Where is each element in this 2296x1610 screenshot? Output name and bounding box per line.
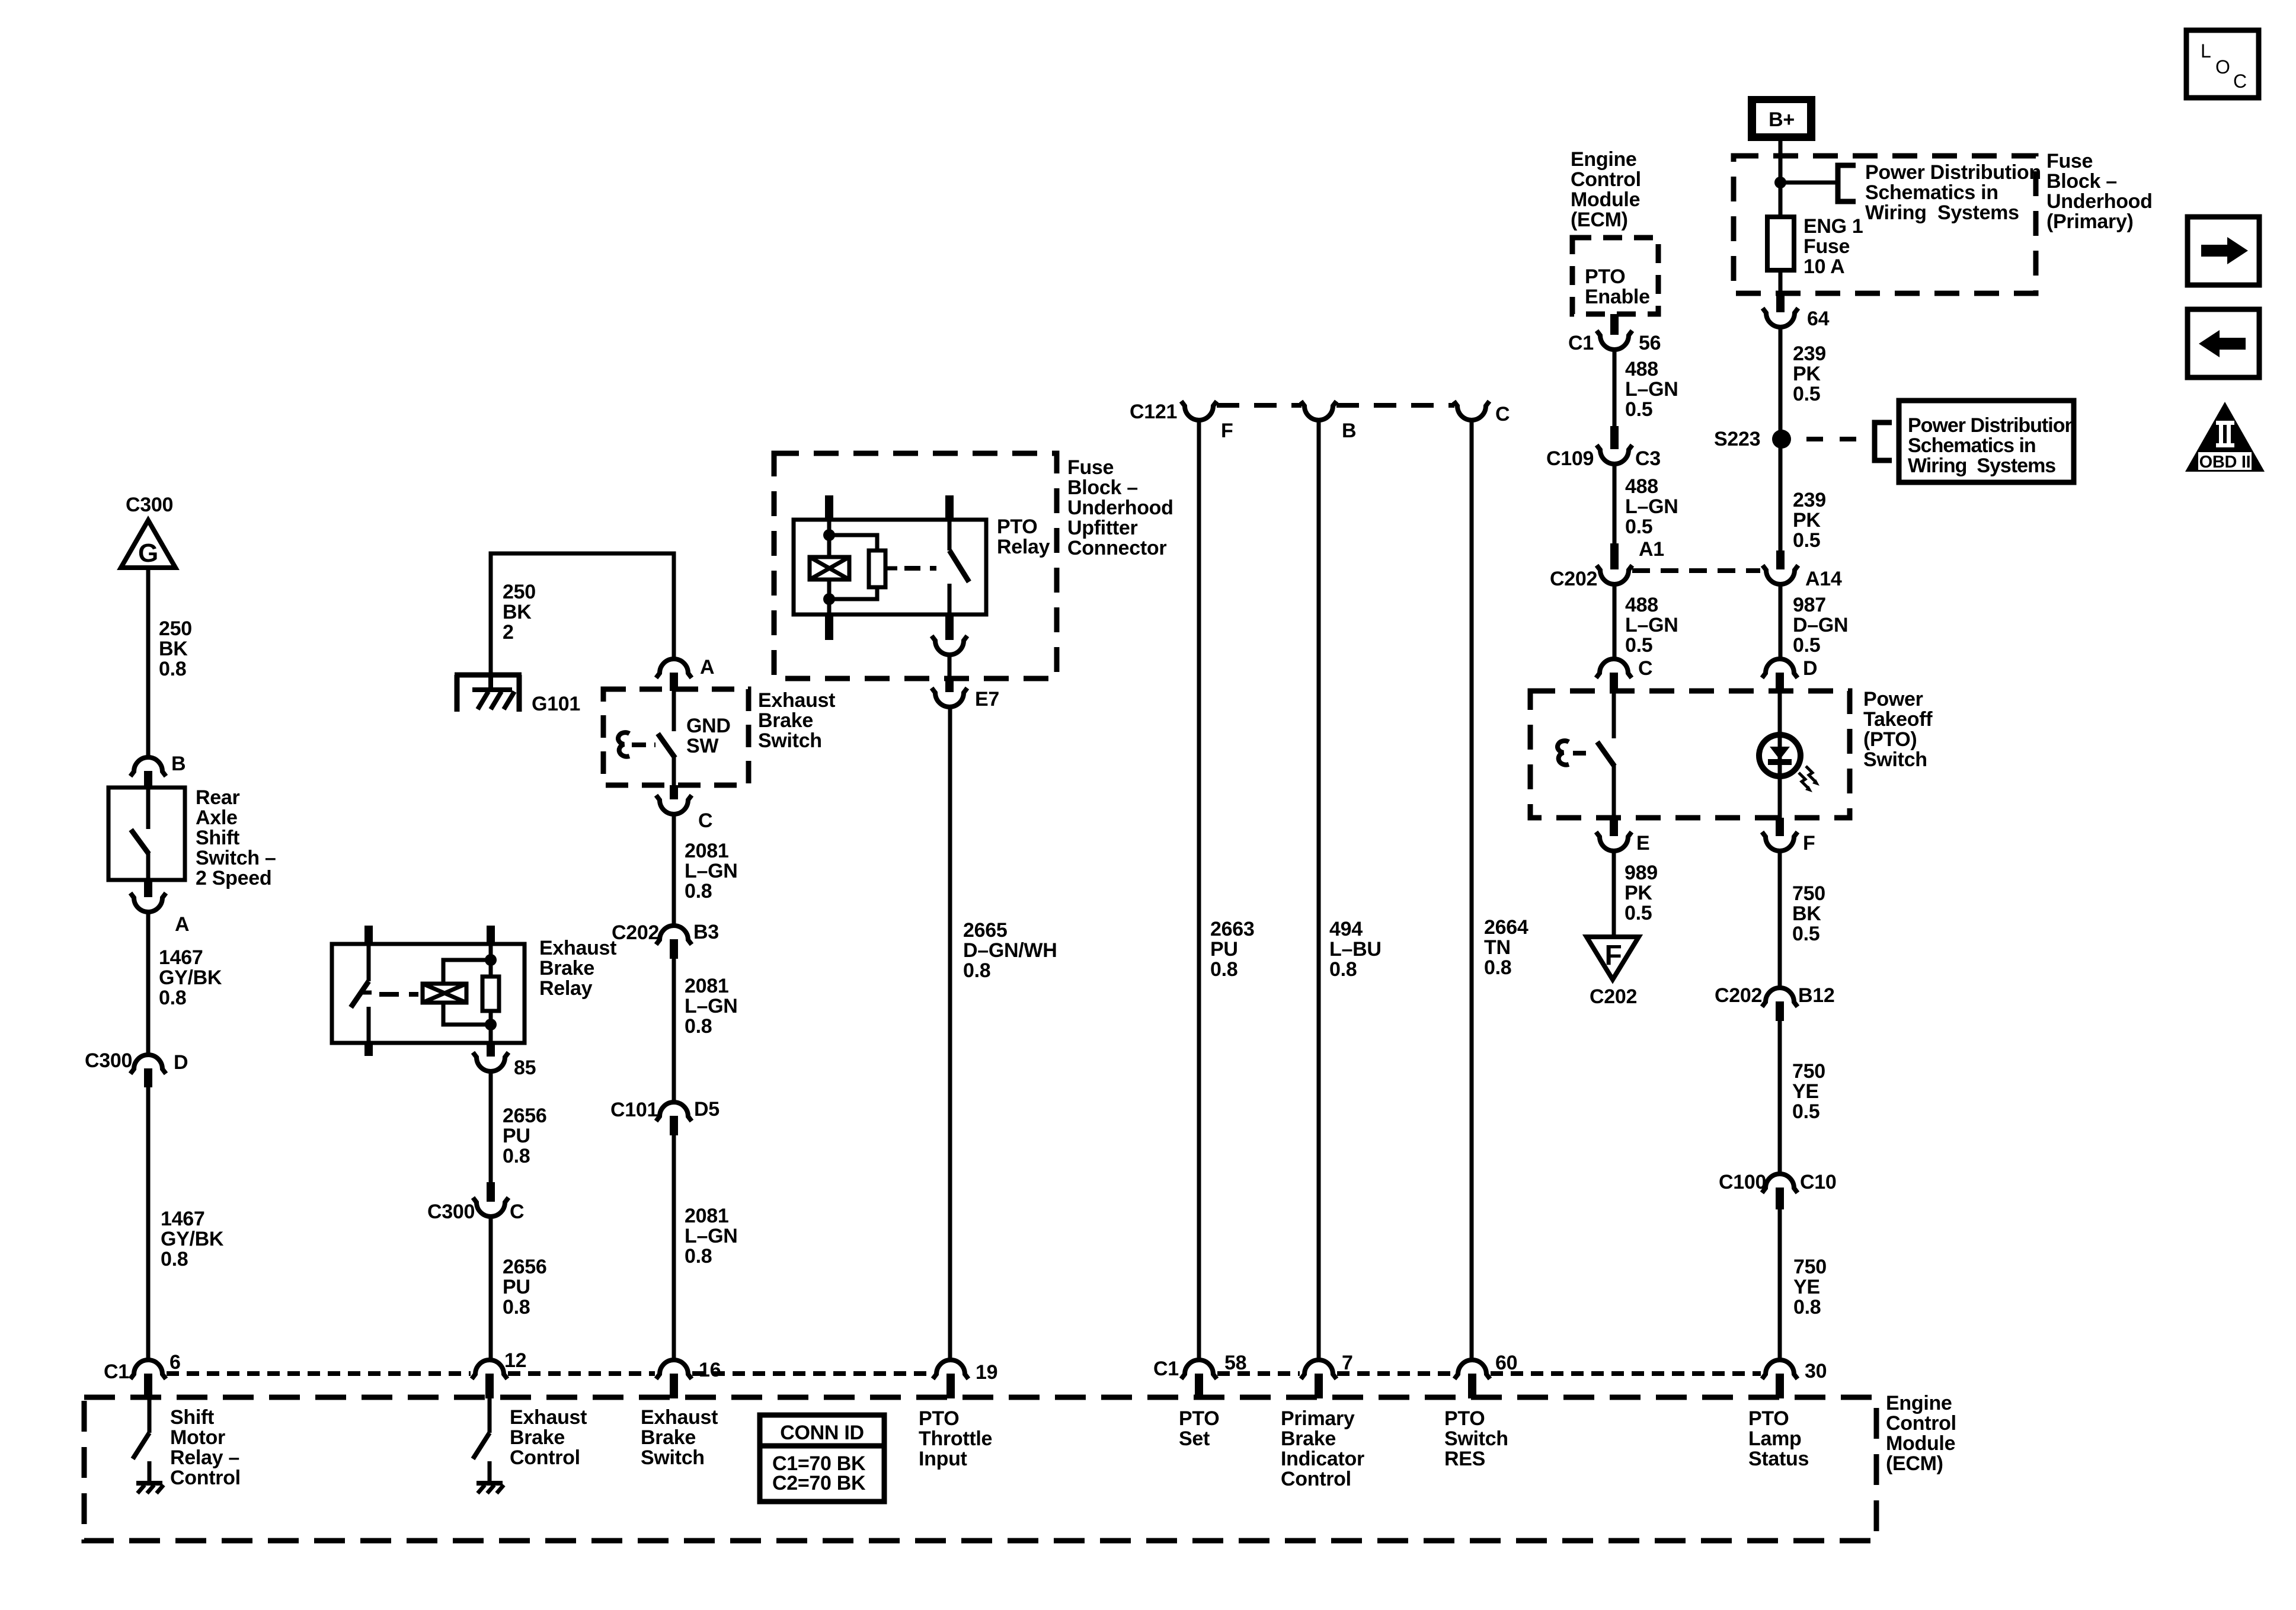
svg-text:0.8: 0.8 [685, 880, 712, 902]
ground (exhaust brake control) [477, 1483, 504, 1493]
svg-text:750: 750 [1793, 1256, 1827, 1278]
Engine Control Module (ECM) dashed box [84, 1397, 1876, 1541]
pin 19 [946, 1374, 955, 1398]
wire 2664 TN 0.8 [1470, 421, 1474, 1361]
svg-text:Control: Control [1571, 168, 1641, 191]
svg-text:BK: BK [1792, 902, 1821, 925]
pin A1 [1610, 543, 1619, 569]
svg-text:750: 750 [1792, 1060, 1825, 1083]
svg-text:S223: S223 [1714, 428, 1760, 450]
pin D [1776, 673, 1784, 691]
svg-text:Fuse: Fuse [1803, 235, 1850, 258]
Rear Axle Shift Switch box [108, 788, 185, 880]
connector C202 dashed line [1632, 568, 1760, 573]
pin E [1610, 818, 1618, 836]
pin 56 [1610, 314, 1619, 335]
PTO Relay box [794, 520, 986, 614]
wire 2663 PU 0.8 [1197, 421, 1201, 1361]
wire 750 BK 0.5 [1778, 852, 1782, 987]
relay pin top right [945, 495, 954, 520]
svg-text:2081: 2081 [685, 975, 728, 997]
PTO Enable dashed box [1572, 238, 1658, 314]
svg-text:6: 6 [170, 1351, 181, 1374]
svg-text:Axle: Axle [196, 806, 238, 829]
svg-text:56: 56 [1639, 332, 1661, 354]
svg-text:PTO: PTO [1748, 1407, 1789, 1430]
svg-text:(ECM): (ECM) [1571, 209, 1628, 231]
resistor parallel top lead [829, 535, 877, 550]
svg-text:Set: Set [1179, 1427, 1210, 1450]
svg-text:A: A [175, 913, 189, 936]
relay switch tick [360, 991, 372, 995]
pin B3 [670, 939, 678, 959]
svg-text:Brake: Brake [641, 1426, 696, 1449]
svg-text:C300: C300 [126, 494, 173, 516]
svg-text:60: 60 [1495, 1352, 1517, 1374]
relay coil X [810, 557, 849, 580]
relay coil box [810, 557, 849, 580]
connector E (female) [1596, 832, 1632, 851]
svg-text:C1: C1 [1153, 1358, 1179, 1380]
svg-text:TN: TN [1484, 936, 1511, 959]
svg-text:Fuse: Fuse [2046, 150, 2093, 172]
svg-text:C202: C202 [1715, 984, 1762, 1007]
pto switch hook [1558, 741, 1569, 765]
svg-text:0.8: 0.8 [685, 1245, 712, 1267]
Exhaust Brake Relay box [332, 944, 525, 1043]
svg-text:D: D [174, 1051, 188, 1074]
connector A14 (female) [1763, 565, 1798, 584]
wire 250 BK 0.8 [146, 568, 151, 757]
svg-text:GY/BK: GY/BK [159, 966, 222, 989]
svg-text:7: 7 [1342, 1352, 1353, 1374]
svg-text:Switch: Switch [1863, 748, 1927, 771]
svg-text:0.8: 0.8 [161, 1248, 188, 1270]
connector 85 (female) [473, 1052, 509, 1071]
svg-text:0.8: 0.8 [503, 1296, 530, 1318]
svg-text:C202: C202 [612, 921, 659, 944]
svg-text:1467: 1467 [161, 1208, 204, 1230]
power distribution bracket [1838, 165, 1856, 201]
svg-text:2664: 2664 [1484, 916, 1528, 939]
connector 64 (female) [1763, 308, 1798, 327]
pin 30 [1776, 1374, 1784, 1398]
svg-text:L–GN: L–GN [1625, 495, 1678, 518]
relay coil top lead [443, 960, 491, 984]
svg-text:G: G [138, 539, 158, 568]
shift motor relay control wire to ground [148, 1461, 152, 1483]
svg-text:0.5: 0.5 [1793, 634, 1820, 657]
svg-text:Lamp: Lamp [1748, 1427, 1801, 1450]
svg-text:Exhaust: Exhaust [641, 1406, 718, 1429]
svg-text:C202: C202 [1590, 985, 1637, 1008]
arrow right icon [2188, 217, 2259, 285]
connector socket (female) [932, 636, 967, 655]
pin 7 [1315, 1374, 1323, 1398]
pin 12 [485, 1374, 494, 1398]
svg-text:Power Distribution: Power Distribution [1908, 414, 2076, 437]
svg-text:Rear: Rear [196, 786, 239, 809]
pto switch wire bottom [1612, 765, 1616, 818]
pin 16 [670, 1374, 678, 1398]
svg-text:Exhaust: Exhaust [758, 689, 835, 712]
wire 2081 L-GN 0.8 mid [672, 959, 676, 1102]
svg-text:PU: PU [503, 1125, 530, 1147]
svg-text:Schematics in: Schematics in [1908, 434, 2036, 457]
pin D5 [670, 1116, 678, 1135]
relay resistor [482, 977, 499, 1011]
svg-text:Brake: Brake [510, 1426, 565, 1449]
ground triangle G (C300) [121, 520, 175, 568]
svg-text:Brake: Brake [758, 709, 813, 732]
relay switch wire top [948, 520, 952, 550]
svg-text:G101: G101 [532, 693, 580, 715]
wire 488 L-GN 0.5 mid [1613, 465, 1617, 543]
LED triangle [1770, 747, 1790, 760]
svg-text:PK: PK [1793, 363, 1821, 385]
connector C121 dashed line [1217, 403, 1302, 408]
connector F (female) [1762, 832, 1798, 851]
svg-text:OBD II: OBD II [2199, 453, 2251, 472]
svg-text:Block –: Block – [2046, 170, 2117, 193]
pin C [670, 785, 678, 799]
svg-text:2 Speed: 2 Speed [196, 867, 271, 889]
splice S223 [1772, 430, 1791, 449]
connector C1 pin 60 (female) [1454, 1360, 1490, 1379]
wire top horizontal [491, 553, 674, 675]
svg-text:85: 85 [514, 1057, 536, 1079]
svg-text:C100: C100 [1719, 1171, 1766, 1193]
svg-text:Brake: Brake [1281, 1427, 1336, 1450]
svg-text:0.5: 0.5 [1625, 398, 1652, 421]
connector A (female) [130, 893, 166, 912]
svg-text:Module: Module [1886, 1432, 1955, 1455]
Power Takeoff (PTO) Switch dashed box [1530, 691, 1850, 818]
Fuse Block Underhood (Primary) dashed box [1734, 156, 2036, 293]
pto switch linkage dashes [1573, 751, 1593, 756]
switch blade [131, 830, 149, 854]
connector C1 pin 58 (female) [1181, 1360, 1217, 1379]
svg-text:O: O [2215, 56, 2230, 78]
relay pin top left [825, 495, 833, 520]
svg-text:RES: RES [1444, 1448, 1485, 1470]
wire 750 YE 0.8 [1778, 1209, 1782, 1361]
svg-text:0.5: 0.5 [1793, 383, 1820, 405]
svg-text:Exhaust: Exhaust [510, 1406, 587, 1429]
wire 2656 PU 0.8 [489, 1072, 493, 1182]
svg-text:E: E [1636, 832, 1649, 854]
svg-text:Relay: Relay [997, 536, 1050, 558]
svg-text:L–GN: L–GN [685, 860, 737, 882]
svg-text:C: C [698, 809, 712, 832]
svg-text:0.8: 0.8 [1210, 958, 1237, 981]
svg-text:488: 488 [1625, 475, 1658, 498]
relay pin bottom right [487, 1043, 495, 1057]
svg-text:Enable: Enable [1585, 286, 1650, 308]
svg-text:Module: Module [1571, 188, 1640, 211]
svg-text:Underhood: Underhood [2046, 190, 2153, 213]
relay switch blade [351, 981, 369, 1007]
pin C300 C [487, 1182, 495, 1202]
svg-text:D: D [1803, 657, 1817, 680]
svg-text:2656: 2656 [503, 1256, 546, 1278]
svg-text:Primary: Primary [1281, 1407, 1355, 1430]
svg-text:B: B [1342, 420, 1356, 442]
svg-text:Schematics in: Schematics in [1865, 181, 1998, 204]
svg-text:GY/BK: GY/BK [161, 1228, 224, 1250]
svg-text:C1: C1 [104, 1361, 129, 1383]
relay linkage dashes [904, 566, 936, 571]
svg-text:0.5: 0.5 [1625, 634, 1652, 657]
svg-text:2: 2 [503, 621, 514, 644]
svg-text:0.8: 0.8 [503, 1145, 530, 1167]
svg-text:C2=70 BK: C2=70 BK [772, 1472, 866, 1494]
svg-text:989: 989 [1625, 862, 1658, 884]
svg-text:0.5: 0.5 [1792, 1100, 1819, 1123]
relay linkage dashes [379, 992, 418, 997]
wire to E7 [948, 655, 952, 678]
wire 2665 D-GN/WH 0.8 [948, 708, 952, 1361]
connector C300 C (female) [473, 1198, 509, 1217]
svg-text:Control: Control [170, 1467, 241, 1489]
svg-text:Takeoff: Takeoff [1863, 708, 1933, 731]
connector C300 D (female) [130, 1055, 166, 1074]
wire 1467 GY/BK 0.8 lower [146, 1087, 151, 1361]
pin F [1776, 818, 1784, 836]
wire 488 L-GN 0.5 lower [1613, 585, 1617, 659]
connector C202 B3 (female) [656, 926, 692, 945]
connector C202 left (female) [1597, 565, 1632, 584]
svg-text:0.8: 0.8 [1484, 956, 1511, 979]
ground G101 stem [488, 675, 493, 691]
pin A [144, 880, 152, 897]
exhaust brake control switch blade [473, 1433, 490, 1459]
pin A14 [1776, 550, 1785, 569]
svg-text:Engine: Engine [1886, 1392, 1952, 1414]
svg-text:Underhood: Underhood [1067, 497, 1173, 519]
junction dot top [823, 529, 835, 541]
pin 6 [144, 1374, 152, 1398]
wire 494 L-BU 0.8 [1317, 421, 1321, 1361]
connector D (PTO switch, female) [1762, 659, 1798, 678]
svg-text:F: F [1604, 940, 1622, 971]
connector C1 56 (female) [1597, 331, 1632, 350]
svg-text:488: 488 [1625, 594, 1658, 616]
pto switch blade [1597, 742, 1614, 766]
svg-text:250: 250 [503, 581, 536, 603]
relay pin bottom left [364, 1043, 373, 1056]
ground G101 bar and hatches [472, 687, 512, 692]
svg-text:C: C [1638, 657, 1652, 680]
Fuse Block Underhood Upfitter Connector dashed box [774, 453, 1057, 678]
svg-text:2656: 2656 [503, 1105, 546, 1127]
svg-text:1467: 1467 [159, 946, 203, 969]
svg-text:Shift: Shift [170, 1406, 214, 1429]
wire 488 L-GN 0.5 [1613, 350, 1617, 426]
relay switch blade [949, 550, 969, 582]
svg-text:F: F [1803, 832, 1815, 854]
svg-text:Switch: Switch [1444, 1427, 1508, 1450]
relay switch wire bottom [948, 584, 952, 614]
connector C1 pin 6 (female) [130, 1360, 166, 1379]
svg-text:A14: A14 [1805, 568, 1842, 590]
svg-text:2081: 2081 [685, 840, 728, 862]
svg-text:C121: C121 [1130, 401, 1177, 423]
pin 64 [1776, 295, 1785, 312]
svg-text:Block –: Block – [1067, 476, 1138, 499]
svg-text:C101: C101 [610, 1099, 658, 1121]
connector C1 dashed line right [1217, 1371, 1300, 1376]
svg-text:58: 58 [1224, 1352, 1246, 1374]
svg-text:B+: B+ [1769, 108, 1795, 131]
svg-text:Wiring Systems: Wiring Systems [1908, 454, 2055, 477]
connector C1 dashed line left [167, 1371, 471, 1376]
svg-text:GND: GND [686, 715, 731, 737]
svg-text:0.5: 0.5 [1792, 923, 1819, 945]
pto switch wire top [1612, 691, 1616, 738]
svg-text:Motor: Motor [170, 1426, 225, 1449]
wire 1467 GY/BK 0.8 [146, 913, 151, 1054]
connector C121 B (female) [1301, 401, 1336, 420]
connector E7 (female) [932, 688, 967, 707]
shift motor relay control switch wire [148, 1398, 152, 1433]
svg-text:YE: YE [1792, 1080, 1819, 1103]
svg-text:B: B [171, 753, 186, 775]
connector C1 pin 7 (female) [1301, 1360, 1336, 1379]
svg-text:0.8: 0.8 [685, 1015, 712, 1038]
svg-text:L–GN: L–GN [685, 1225, 737, 1247]
wire 750 YE 0.5 [1778, 1021, 1782, 1173]
relay pin bottom left [825, 614, 833, 640]
relay resistor lead top [489, 944, 493, 977]
svg-text:CONN ID: CONN ID [780, 1422, 864, 1444]
svg-text:Power Distribution: Power Distribution [1865, 161, 2041, 184]
switch wire top [146, 788, 151, 829]
svg-text:Brake: Brake [539, 957, 594, 980]
svg-text:0.8: 0.8 [963, 959, 990, 982]
svg-text:Switch: Switch [758, 729, 822, 752]
junction dot top [485, 954, 497, 966]
resistor linkage lead [885, 566, 897, 571]
svg-text:E7: E7 [975, 688, 999, 710]
gnd sw wire top [672, 691, 676, 731]
pin B [144, 771, 152, 789]
pin E7 [945, 678, 954, 692]
connector B (female) [130, 757, 166, 776]
svg-text:A: A [700, 656, 714, 678]
connector C121 F (female) [1181, 401, 1217, 420]
svg-text:BK: BK [503, 601, 532, 623]
svg-text:L–GN: L–GN [1625, 614, 1678, 636]
svg-text:D5: D5 [694, 1098, 720, 1121]
Power Distribution Schematics box [1899, 401, 2074, 482]
wire 989 PK 0.5 [1612, 852, 1616, 937]
connector C1 pin 12 (female) [472, 1360, 507, 1379]
svg-text:ENG 1: ENG 1 [1803, 215, 1863, 238]
svg-text:0.8: 0.8 [1329, 958, 1357, 981]
wire 239 PK 0.5 [1779, 328, 1783, 550]
svg-text:239: 239 [1793, 489, 1826, 511]
CONN ID table box [760, 1415, 884, 1502]
svg-text:PU: PU [1210, 938, 1238, 961]
svg-text:(Primary): (Primary) [2046, 210, 2134, 233]
svg-text:C: C [510, 1201, 524, 1223]
LED wire [1778, 691, 1782, 818]
connector A (exhaust brake switch) [656, 659, 692, 678]
svg-text:16: 16 [699, 1359, 721, 1381]
svg-text:Throttle: Throttle [919, 1427, 992, 1450]
svg-text:L–GN: L–GN [1625, 378, 1678, 401]
svg-text:C202: C202 [1550, 568, 1597, 590]
fuse ENG 1 [1767, 217, 1794, 270]
svg-text:F: F [1221, 420, 1233, 442]
wire 987 D-GN 0.5 [1779, 585, 1783, 659]
svg-text:PTO: PTO [1585, 265, 1625, 288]
svg-text:L–BU: L–BU [1329, 938, 1382, 961]
LED cathode bar [1768, 759, 1792, 765]
relay switch wire bottom [367, 1007, 371, 1043]
junction dot [1774, 177, 1786, 188]
svg-text:C10: C10 [1800, 1171, 1836, 1193]
svg-text:Connector: Connector [1067, 537, 1166, 559]
resistor [869, 550, 885, 587]
svg-text:239: 239 [1793, 343, 1826, 365]
OBD II icon [2185, 402, 2265, 472]
svg-text:C300: C300 [427, 1201, 475, 1223]
connector C1 pin 30 (female) [1762, 1360, 1798, 1379]
wire to power distribution bracket [1780, 181, 1838, 185]
junction dot bottom [485, 1019, 497, 1030]
exhaust brake control switch wire [488, 1398, 492, 1433]
svg-text:Control: Control [1281, 1468, 1351, 1490]
svg-text:0.8: 0.8 [1793, 1296, 1821, 1318]
svg-text:PTO: PTO [997, 516, 1037, 538]
connector C109 C3 (female) [1597, 445, 1632, 464]
relay pin top right [487, 926, 495, 944]
svg-text:Power: Power [1863, 688, 1923, 710]
svg-text:250: 250 [159, 617, 192, 640]
svg-text:D–GN: D–GN [1793, 614, 1848, 636]
wire B+ to fuse [1779, 141, 1783, 217]
gnd sw linkage dashes [632, 742, 655, 747]
svg-text:Wiring Systems: Wiring Systems [1865, 201, 2019, 224]
resistor parallel bottom lead [829, 587, 877, 599]
svg-text:C1: C1 [1568, 332, 1594, 354]
junction dot bottom [823, 593, 835, 605]
svg-text:64: 64 [1807, 308, 1830, 330]
svg-text:L: L [2201, 40, 2211, 62]
svg-text:C300: C300 [85, 1049, 132, 1072]
svg-text:2663: 2663 [1210, 918, 1254, 940]
svg-text:Relay –: Relay – [170, 1446, 239, 1469]
svg-text:Exhaust: Exhaust [539, 937, 616, 959]
relay resistor lead bottom [489, 1011, 493, 1043]
splice dashes [1806, 437, 1873, 441]
svg-text:987: 987 [1793, 594, 1826, 616]
svg-text:C: C [1495, 403, 1510, 425]
connector C (female) [656, 795, 692, 814]
ground (shift motor relay control) [136, 1483, 164, 1493]
svg-text:19: 19 [976, 1361, 997, 1384]
relay coil box [423, 984, 466, 1003]
svg-text:Engine: Engine [1571, 148, 1637, 171]
svg-text:C: C [2233, 71, 2247, 92]
Exhaust Brake Switch dashed box [603, 689, 749, 785]
svg-text:2665: 2665 [963, 919, 1007, 942]
pin C [1610, 673, 1618, 691]
wire fuse to 64 [1779, 270, 1783, 295]
svg-text:0.5: 0.5 [1625, 902, 1652, 924]
